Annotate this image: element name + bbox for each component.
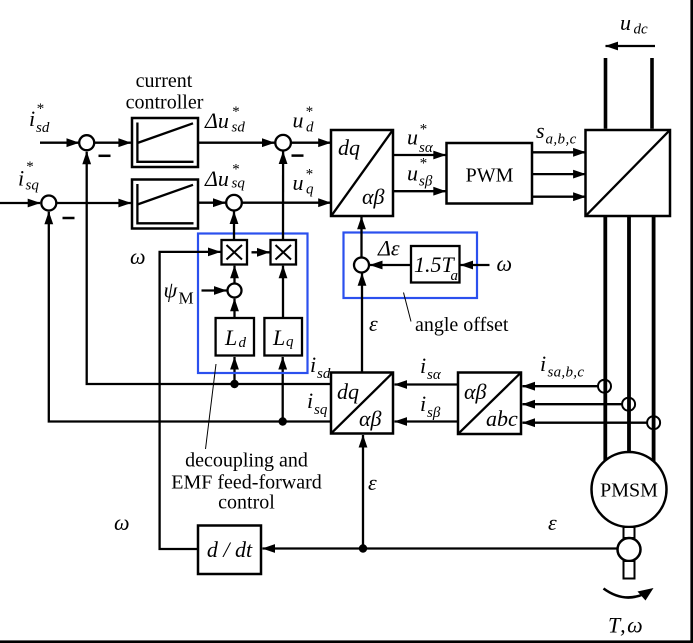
wire 1.5Ta to S6 xyxy=(370,264,411,266)
wire S6 up to voltage transform xyxy=(360,217,362,258)
wire isa xyxy=(395,383,459,385)
svg-text:ω: ω xyxy=(497,251,513,276)
wire usa* xyxy=(393,154,446,156)
wire isd feedback xyxy=(87,152,331,384)
label current controller xyxy=(126,70,204,114)
svg-text:u: u xyxy=(620,10,631,35)
frame right border xyxy=(690,0,693,643)
svg-text:i: i xyxy=(310,352,316,377)
svg-text:current: current xyxy=(136,70,193,92)
label isb xyxy=(420,391,441,421)
svg-text:Δu: Δu xyxy=(204,108,229,133)
svg-text:u: u xyxy=(407,125,418,150)
svg-text:EMF feed-forward: EMF feed-forward xyxy=(171,472,322,494)
svg-text:*: * xyxy=(305,104,313,120)
svg-text:αβ: αβ xyxy=(464,379,487,404)
svg-text:sα: sα xyxy=(419,140,434,156)
wire psiM input xyxy=(202,289,227,291)
svg-text:control: control xyxy=(218,492,275,514)
svg-text:ε: ε xyxy=(548,510,557,535)
summing junction S4 xyxy=(226,195,242,211)
svg-text:q: q xyxy=(306,182,314,198)
block d/dt xyxy=(198,526,261,575)
junction epsilon xyxy=(359,544,367,552)
wire Ld to S5 xyxy=(233,299,235,318)
controller 1 block xyxy=(132,118,198,167)
svg-text:sβ: sβ xyxy=(427,405,441,421)
svg-text:ε: ε xyxy=(368,470,377,495)
multiplier M2 xyxy=(271,240,297,265)
PMSM circle xyxy=(592,452,667,527)
wire isb xyxy=(395,420,459,422)
label usb* xyxy=(407,156,433,190)
wire phase a xyxy=(603,217,607,462)
svg-text:i: i xyxy=(540,351,546,376)
label dusd* xyxy=(204,104,245,136)
summing junction S1 xyxy=(79,135,94,150)
wire S3 to dq/ab voltage block xyxy=(291,142,331,144)
leader decoupling xyxy=(206,364,217,449)
junction isd to Ld xyxy=(230,380,238,388)
wire S2 to controller 2 xyxy=(56,202,131,204)
label sabc xyxy=(536,118,577,148)
wire S5 to M1 xyxy=(233,266,235,284)
wire isq* input xyxy=(0,202,40,204)
inverter block xyxy=(586,130,671,216)
label decoupling xyxy=(171,450,322,514)
label dusq* xyxy=(204,162,245,192)
svg-text:PMSM: PMSM xyxy=(600,480,658,502)
wire isq feedback xyxy=(49,212,331,422)
summing junction S6 xyxy=(354,258,369,273)
svg-text:PWM: PWM xyxy=(466,165,514,187)
svg-text:ε: ε xyxy=(369,311,378,336)
svg-text:u: u xyxy=(293,170,304,195)
svg-text:a,b,c: a,b,c xyxy=(546,132,577,148)
junction isq to Lq xyxy=(279,417,287,425)
wire S4 to dq/ab voltage block xyxy=(242,202,331,204)
svg-text:i: i xyxy=(420,353,426,378)
wire M1 to M2 xyxy=(252,251,270,253)
svg-text:ω: ω xyxy=(114,510,130,535)
encoder circle xyxy=(618,538,641,561)
svg-text:ω: ω xyxy=(130,244,146,269)
svg-text:i: i xyxy=(29,106,35,131)
shaft lower xyxy=(624,561,635,579)
svg-text:*: * xyxy=(419,156,427,172)
summing junction S3 xyxy=(275,135,291,151)
wire DC bus left xyxy=(604,58,608,129)
svg-text:Δε: Δε xyxy=(377,236,400,261)
node isd* label xyxy=(29,101,50,136)
wire controller1 to S3 xyxy=(198,142,275,144)
svg-text:q: q xyxy=(286,334,294,350)
svg-text:d: d xyxy=(306,120,314,136)
svg-text:sd: sd xyxy=(232,120,246,136)
svg-text:sa,b,c: sa,b,c xyxy=(548,365,585,381)
wire usb* xyxy=(393,190,446,192)
svg-text:u: u xyxy=(293,108,304,133)
wire epsilon from encoder xyxy=(263,547,618,549)
svg-text:a: a xyxy=(451,268,459,284)
svg-text:ψ: ψ xyxy=(164,278,178,303)
wire sensor c to ab/abc xyxy=(523,422,648,424)
svg-text:angle offset: angle offset xyxy=(415,314,509,336)
svg-text:controller: controller xyxy=(126,92,204,114)
wire udc arrow xyxy=(606,45,656,47)
PWM block xyxy=(447,143,533,204)
wire epsilon to current transform xyxy=(362,435,364,549)
svg-text:sq: sq xyxy=(26,178,40,194)
wire M2 up to S3 xyxy=(282,152,284,241)
label usa* xyxy=(407,122,434,157)
wire epsilon up to S6 xyxy=(361,273,363,372)
current sensor c xyxy=(647,416,660,429)
svg-text:d / dt: d / dt xyxy=(207,537,253,562)
wire omega to M1 xyxy=(160,252,221,549)
decoupling blue box xyxy=(198,234,308,374)
summing junction S2 xyxy=(41,196,56,211)
label isabc xyxy=(540,351,584,381)
minus sign at S3 xyxy=(292,154,304,157)
svg-text:*: * xyxy=(305,167,313,183)
label psiM xyxy=(164,278,194,308)
alphabeta/abc transform block xyxy=(458,373,521,435)
svg-text:L: L xyxy=(272,325,285,350)
minus sign at S2 xyxy=(63,217,75,220)
block Ld xyxy=(216,318,254,356)
current sensor a xyxy=(598,380,611,393)
wire S1 to controller 1 xyxy=(94,142,131,144)
svg-text:sd: sd xyxy=(317,366,331,382)
minus sign at S1 xyxy=(99,155,111,158)
shaft upper xyxy=(624,527,635,538)
wire PWM out 1 xyxy=(532,151,586,153)
svg-text:abc: abc xyxy=(486,406,518,431)
label isa xyxy=(420,353,442,383)
block Lq xyxy=(264,318,302,356)
svg-text:i: i xyxy=(18,166,24,191)
svg-text:*: * xyxy=(36,101,44,117)
rotation arrow xyxy=(604,588,654,601)
label isd xyxy=(310,352,331,382)
svg-text:sq: sq xyxy=(232,176,246,192)
wire sensor b to ab/abc xyxy=(523,403,623,405)
label ud* xyxy=(293,104,315,136)
svg-text:sq: sq xyxy=(314,402,328,418)
multiplier M1 xyxy=(222,240,248,265)
svg-text:dq: dq xyxy=(338,135,360,160)
svg-text:s: s xyxy=(536,118,545,143)
svg-text:αβ: αβ xyxy=(362,184,385,209)
frame bottom border xyxy=(0,640,693,643)
wire omega to 1.5Ta xyxy=(461,264,490,266)
dq/alphabeta voltage transform block xyxy=(331,130,393,216)
svg-text:*: * xyxy=(419,122,427,138)
wire controller2 to S4 xyxy=(198,202,226,204)
svg-text:d: d xyxy=(239,335,247,351)
wire isd* input xyxy=(40,142,79,144)
svg-text:1.5T: 1.5T xyxy=(414,252,456,277)
svg-text:decoupling and: decoupling and xyxy=(185,450,308,472)
node isq* label xyxy=(18,159,39,194)
wire isq to Lq xyxy=(282,357,284,422)
svg-text:*: * xyxy=(26,159,34,175)
wire PWM out 3 xyxy=(532,196,586,198)
angle offset blue box xyxy=(344,233,478,299)
wire Lq to M2 xyxy=(282,266,284,318)
svg-text:*: * xyxy=(232,104,240,120)
dq/alphabeta current transform block xyxy=(331,373,393,434)
controller 2 block xyxy=(132,180,198,229)
svg-text:dc: dc xyxy=(634,22,649,38)
svg-text:T,ω: T,ω xyxy=(608,613,644,638)
wire phase b xyxy=(627,217,631,453)
wire isd to Ld xyxy=(233,357,235,384)
svg-text:Δu: Δu xyxy=(204,166,229,191)
svg-text:sd: sd xyxy=(36,120,50,136)
svg-text:sβ: sβ xyxy=(419,174,433,190)
svg-text:sα: sα xyxy=(427,367,442,383)
block 1.5Ta xyxy=(411,246,460,284)
svg-text:αβ: αβ xyxy=(359,406,382,431)
svg-text:i: i xyxy=(420,391,426,416)
wire PWM out 2 xyxy=(532,173,586,175)
label isq xyxy=(307,388,328,418)
wire M1 up to S4 xyxy=(233,212,235,241)
label udc xyxy=(620,10,648,38)
wire DC bus right xyxy=(650,58,654,129)
svg-text:L: L xyxy=(224,325,237,350)
svg-text:u: u xyxy=(407,161,418,186)
wire sensor a to ab/abc xyxy=(523,385,599,387)
svg-text:i: i xyxy=(307,388,313,413)
svg-text:dq: dq xyxy=(337,379,359,404)
label uq* xyxy=(293,167,315,198)
summing junction S5 xyxy=(228,284,242,298)
current sensor b xyxy=(622,398,635,411)
wire phase c xyxy=(652,217,656,462)
leader angle offset xyxy=(404,293,412,322)
svg-text:M: M xyxy=(179,289,194,308)
